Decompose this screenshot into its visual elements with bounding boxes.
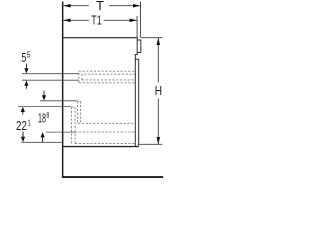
- extension line D (ref 18.8 bottom): [46, 131, 75, 133]
- lower drawer dashed front v2: [74, 107, 76, 144]
- H dimension line upper segment: [157, 38, 159, 83]
- T extension line: [140, 2, 142, 38]
- svg-text:5: 5: [27, 50, 31, 60]
- extension line C2 (ref 22.1 top): [18, 106, 71, 108]
- H bottom arrow: [157, 137, 161, 144]
- H bottom extension line: [139, 143, 163, 145]
- dimension T left arrow: [63, 4, 70, 8]
- cabinet top edge: [62, 37, 137, 38]
- dimension T1 line left segment: [63, 19, 88, 21]
- H top arrow: [157, 38, 161, 45]
- back panel main vertical: [135, 54, 136, 146]
- cabinet bottom edge: [62, 146, 138, 147]
- upper drawer dashed outer box: [79, 71, 135, 83]
- svg-text:8: 8: [46, 110, 49, 120]
- 22.1 bottom arrow (down, inside): [22, 132, 24, 138]
- lower drawer dashed inner v3: [77, 101, 79, 123]
- dimension T1 right arrow: [130, 19, 137, 23]
- lower drawer dashed mid line (y 132.4): [75, 131, 135, 133]
- 5.5 bottom arrow (up, outside): [25, 85, 27, 89]
- lower drawer dashed front v1: [70, 107, 72, 144]
- svg-text:H: H: [155, 84, 162, 98]
- svg-text:18: 18: [38, 111, 46, 126]
- extension line A (upper, ref for 5.5 top): [22, 73, 79, 75]
- lower drawer dashed inner v4: [80, 101, 82, 123]
- lower drawer dashed bottom line (y 143.6): [75, 143, 135, 145]
- svg-text:1: 1: [28, 118, 31, 128]
- floor line: [62, 176, 163, 178]
- 18.8 top arrow (down, outside above C): [43, 91, 45, 96]
- svg-text:22: 22: [16, 118, 27, 133]
- back panel step: [135, 54, 138, 55]
- upper drawer dashed inner box: [82, 74, 135, 80]
- dimension T line left segment: [63, 5, 88, 7]
- lower back rail (long tab): [135, 59, 139, 146]
- extension line C (ref 18.8 top): [40, 100, 77, 102]
- back panel top vertical: [137, 37, 138, 55]
- H top extension line: [141, 37, 163, 39]
- extension line E (ref 22.1 bottom): [21, 141, 63, 143]
- H dimension line lower segment: [157, 98, 159, 144]
- svg-text:T1: T1: [91, 13, 101, 27]
- dimension T line right segment: [109, 5, 140, 7]
- svg-text:T: T: [96, 0, 104, 13]
- T1 extension line: [136, 16, 138, 37]
- 22.1 top arrow (up, inside): [22, 112, 24, 115]
- dimension T1 left arrow: [63, 19, 70, 23]
- 5.5 top arrow (down, outside): [25, 64, 27, 69]
- dimension T1 line right segment: [104, 19, 137, 21]
- dimension T right arrow: [133, 4, 140, 8]
- lower drawer dashed rail line (y 123): [78, 122, 135, 124]
- extension line B (lower, ref for 5.5 bottom): [22, 79, 79, 81]
- top wall rail tab: [138, 40, 141, 53]
- cabinet front edge (vertical, full height to floor): [62, 2, 64, 178]
- lower drawer inner top cap: [77, 100, 81, 102]
- 18.8 bottom arrow (up, outside below D): [42, 137, 44, 142]
- lower drawer front top cap: [71, 106, 75, 108]
